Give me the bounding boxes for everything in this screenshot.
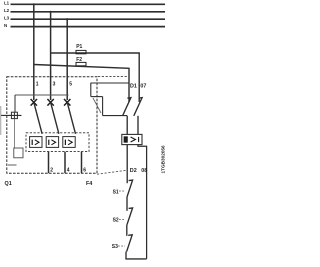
fuse P1 box [76, 44, 86, 54]
dashed linkage to D2 [97, 170, 127, 174]
dashed actuator S2 [119, 219, 125, 221]
fuse F2 box [76, 57, 86, 66]
wire aux down [102, 97, 104, 116]
wire S2 to S3 [126, 225, 128, 236]
wire chain down to S1 [126, 145, 128, 184]
wire aux to D1 node [103, 115, 128, 117]
wire D1 left lower [126, 116, 128, 135]
wire operator right jog [138, 145, 147, 259]
wire S1 to S2 [126, 197, 128, 211]
overcurrent element I> pole3 [63, 137, 75, 148]
svg-text:08: 08 [141, 168, 147, 174]
svg-text:P1: P1 [76, 44, 82, 50]
wire pole3 bottom stub [81, 152, 83, 174]
svg-text:3: 3 [53, 81, 56, 87]
wire coil to linkage [14, 95, 16, 112]
wire coil down faint [13, 119, 15, 148]
wire bottom return [125, 258, 146, 260]
wire through coil square [1, 114, 22, 116]
breaker Q1 pole2 contact cross [47, 99, 53, 106]
junction dot pole1/L1 [33, 3, 35, 5]
wire bottom-left stub [8, 164, 17, 166]
svg-text:L3: L3 [4, 16, 10, 21]
svg-text:D2: D2 [130, 168, 137, 174]
wire aux top branch [91, 82, 130, 84]
breaker Q1 pole2 blade [51, 102, 59, 134]
wire D1 right lower [137, 116, 139, 135]
svg-text:L1: L1 [4, 1, 10, 6]
contact D1 right blade [134, 98, 142, 116]
dashed linkage to operator [98, 76, 128, 78]
overcurrent element I> pole1 [30, 137, 42, 148]
wire L2 bus [11, 11, 166, 13]
breaker Q1 pole1 blade [34, 102, 42, 134]
wire L1 bus [11, 3, 166, 5]
coil square release [11, 112, 17, 118]
svg-text:4: 4 [67, 167, 70, 173]
motor operator symbol [124, 137, 138, 142]
wire pole2 bottom stub [64, 152, 66, 174]
dashed actuator S1 [119, 190, 125, 192]
limit switch S3 blade [127, 235, 133, 252]
limit switch S2 blade [127, 208, 133, 225]
svg-text:2: 2 [50, 167, 53, 173]
breaker Q1 pole1 contact cross [31, 99, 37, 106]
wire N bus [11, 26, 166, 28]
scan artifact left edge [0, 106, 2, 135]
dashed enclosure Q1 [7, 77, 97, 173]
wire pole2 drop from L2 [50, 12, 52, 100]
overcurrent element I> pole2 [46, 137, 58, 148]
trip unit box dashed [26, 133, 89, 152]
wire coil square divider [13, 112, 15, 118]
wire pole3 drop from L3 [66, 19, 68, 100]
svg-text:S2: S2 [113, 217, 119, 223]
svg-text:1: 1 [36, 81, 39, 87]
junction dot pole3/L3 [66, 18, 68, 20]
wire trip linkage across poles [15, 94, 69, 96]
contact D1 left blade [123, 98, 131, 116]
svg-text:L2: L2 [4, 8, 10, 13]
limit switch S1 blade [127, 180, 133, 197]
wire L3 bus [11, 18, 166, 20]
wire pole1 drop from L1 [33, 4, 35, 100]
svg-text:07: 07 [140, 84, 146, 90]
dashed actuator S3 [118, 245, 125, 247]
wire aux stub [91, 96, 103, 98]
svg-text:D1: D1 [130, 84, 137, 90]
aux contact blade Q1 [93, 98, 101, 113]
svg-text:Q1: Q1 [5, 181, 12, 187]
wire aux drop [90, 83, 92, 97]
breaker Q1 pole3 contact cross [64, 99, 70, 106]
wire S3 down [125, 252, 127, 259]
svg-text:S1: S1 [113, 190, 119, 196]
aux block bottom-left rect [14, 148, 23, 158]
svg-text:N: N [4, 23, 7, 28]
svg-text:1TGB302056: 1TGB302056 [161, 145, 166, 174]
svg-text:F4: F4 [86, 181, 92, 187]
svg-text:6: 6 [83, 167, 86, 173]
wire W1 from L2 fuse feed [51, 53, 140, 102]
junction dot pole2/L2 [50, 11, 52, 13]
wire W2 from L1 fuse feed [34, 65, 129, 103]
wire pole1 bottom stub [48, 152, 50, 174]
svg-text:S3: S3 [112, 244, 118, 250]
svg-text:5: 5 [69, 81, 72, 87]
breaker Q1 pole3 blade [67, 102, 75, 134]
motor operator box [122, 134, 142, 144]
